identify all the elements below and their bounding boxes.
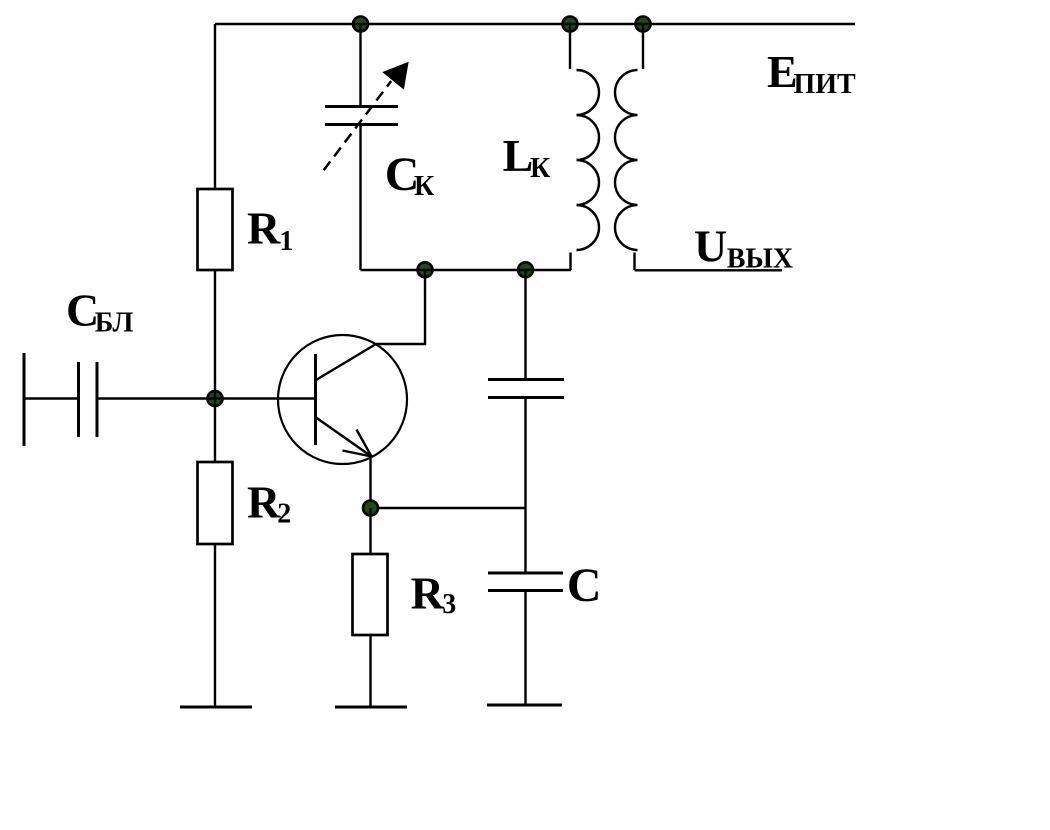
- wire emitter node to C branch: [371, 507, 526, 509]
- ground left: [180, 706, 252, 709]
- capacitor C1 upper plates: [488, 380, 564, 398]
- wire R1 to base node: [214, 270, 216, 462]
- svg-text:К: К: [530, 153, 551, 184]
- svg-text:ПИТ: ПИТ: [794, 69, 857, 100]
- node tank-collector junction: [418, 262, 433, 277]
- label Lk: [503, 130, 551, 184]
- input terminal bar: [23, 353, 26, 446]
- ground middle: [335, 706, 407, 709]
- wire Uout output: [635, 269, 783, 271]
- svg-text:U: U: [694, 220, 727, 271]
- wire Cbl to base node: [97, 397, 316, 399]
- wire left vertical from rail to R1: [214, 24, 216, 189]
- ground right: [487, 704, 562, 707]
- capacitor Ck plates: [325, 107, 398, 125]
- label Сбл: [66, 284, 134, 338]
- transistor VT1 collector lead: [316, 344, 376, 380]
- label Uvyh: [694, 220, 793, 274]
- transistor VT1 emitter lead: [316, 418, 372, 457]
- wire C branch middle: [524, 398, 526, 574]
- capacitor Ck variable arrowhead: [383, 63, 408, 89]
- wire Ck down to tank bottom: [359, 125, 361, 271]
- wire C to ground: [524, 591, 526, 706]
- label Ck: [385, 148, 435, 202]
- node rail-Lk primary junction: [563, 17, 578, 32]
- transistor VT1 base bar: [314, 354, 317, 445]
- svg-text:R: R: [247, 203, 281, 254]
- wire R2 to ground: [214, 544, 216, 707]
- node rail-Ck junction: [353, 17, 368, 32]
- svg-text:К: К: [414, 171, 435, 202]
- label R3: [411, 568, 457, 620]
- svg-text:БЛ: БЛ: [95, 308, 134, 339]
- wire input to Cbl: [24, 397, 78, 399]
- svg-text:L: L: [503, 130, 534, 181]
- label R1: [247, 203, 293, 257]
- capacitor C lower plates: [488, 573, 563, 591]
- wire collector to tank node: [376, 271, 425, 345]
- label Epit: [767, 46, 856, 100]
- resistor R1: [198, 189, 233, 270]
- wire emitter down: [369, 457, 371, 508]
- transistor VT1 circle: [278, 335, 407, 464]
- svg-text:3: 3: [442, 589, 456, 620]
- wire tank bottom horizontal: [361, 269, 572, 271]
- svg-text:1: 1: [279, 226, 293, 257]
- capacitor Ck variable arrow dashed shaft: [324, 81, 392, 170]
- transistor VT1 emitter arrowhead: [343, 430, 372, 457]
- wire rail to Ck: [359, 24, 361, 106]
- svg-text:2: 2: [277, 499, 291, 530]
- svg-text:R: R: [247, 477, 281, 528]
- wire C branch upper: [524, 270, 526, 379]
- inductor Lk primary winding: [570, 24, 599, 270]
- node tank-C junction: [518, 262, 533, 277]
- wire emitter node to R3: [369, 508, 371, 554]
- label R2: [247, 477, 291, 530]
- svg-text:R: R: [411, 568, 445, 619]
- node emitter junction: [363, 501, 378, 516]
- node base junction: [208, 391, 223, 406]
- svg-text:ВЫХ: ВЫХ: [727, 244, 793, 275]
- resistor R2: [198, 462, 233, 544]
- wire R3 to ground: [369, 635, 371, 707]
- resistor R3: [353, 554, 388, 635]
- wire top supply rail: [215, 23, 855, 25]
- node rail-Lk secondary junction: [636, 17, 651, 32]
- svg-text:C: C: [567, 559, 602, 612]
- capacitor Сбл plates: [79, 362, 98, 437]
- inductor Lk secondary winding: [615, 24, 643, 270]
